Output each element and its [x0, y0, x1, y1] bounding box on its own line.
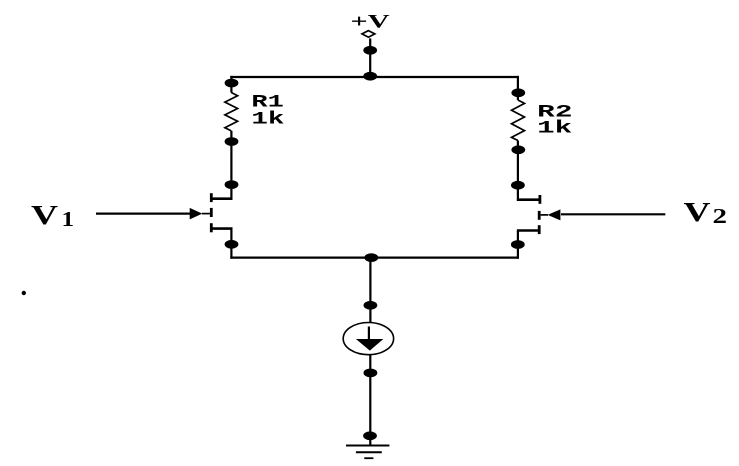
junction dot below R2	[511, 145, 525, 154]
ground	[346, 446, 389, 459]
wire: top rail	[230, 76, 519, 78]
wire: V2 input line	[561, 213, 665, 215]
power symbol +V (open diamond)	[362, 31, 375, 38]
svg-text:+V: +V	[351, 12, 390, 33]
svg-text:V: V	[684, 197, 712, 227]
junction dot at Q1 drain wire	[225, 180, 239, 189]
junction dot above R2	[511, 88, 525, 97]
wire: current source to ground	[369, 355, 371, 446]
transistor Q2 (right MOSFET)	[517, 195, 561, 234]
wire: +V stub down to top rail	[369, 38, 371, 77]
junction dot at Q1 source wire	[225, 240, 239, 249]
wire: bottom rail to current source	[369, 258, 371, 324]
wire: bottom rail	[230, 257, 519, 259]
junction dot below current source	[364, 369, 378, 378]
current source I1	[343, 323, 393, 355]
label R2 value 1k	[537, 102, 572, 138]
wire: right branch upper vertical	[517, 76, 519, 100]
svg-text:1k: 1k	[537, 119, 572, 139]
wire: V1 input line	[96, 213, 191, 215]
stray period mark	[22, 291, 26, 295]
junction: top rail center	[363, 72, 377, 81]
junction dot on +V stub	[363, 46, 377, 55]
wire: R2 bottom to Q2 drain	[517, 141, 519, 201]
wire: Q1 source down to bottom rail	[230, 229, 232, 259]
junction dot at Q2 source wire	[511, 240, 525, 249]
transistor Q1 (left MOSFET)	[190, 193, 233, 232]
svg-text:1k: 1k	[251, 110, 284, 130]
junction dot above ground	[363, 431, 377, 440]
svg-text:V: V	[31, 200, 59, 230]
label R1 value 1k	[251, 93, 284, 130]
junction dot at Q2 drain wire	[511, 181, 525, 190]
wire: R1 bottom to Q1 drain	[230, 131, 232, 200]
wire: Q2 source down to bottom rail	[517, 231, 519, 259]
junction dot above current source	[364, 301, 378, 310]
label V2	[684, 197, 728, 228]
resistor R1	[225, 93, 238, 131]
svg-text:2: 2	[713, 204, 728, 228]
junction dot below R1	[225, 137, 239, 146]
resistor R2	[512, 100, 525, 141]
wire: left branch upper vertical	[230, 76, 232, 93]
svg-text:1: 1	[62, 207, 75, 231]
junction dot above R1	[225, 79, 239, 88]
label V1	[31, 200, 74, 231]
junction: bottom rail center	[364, 253, 378, 262]
